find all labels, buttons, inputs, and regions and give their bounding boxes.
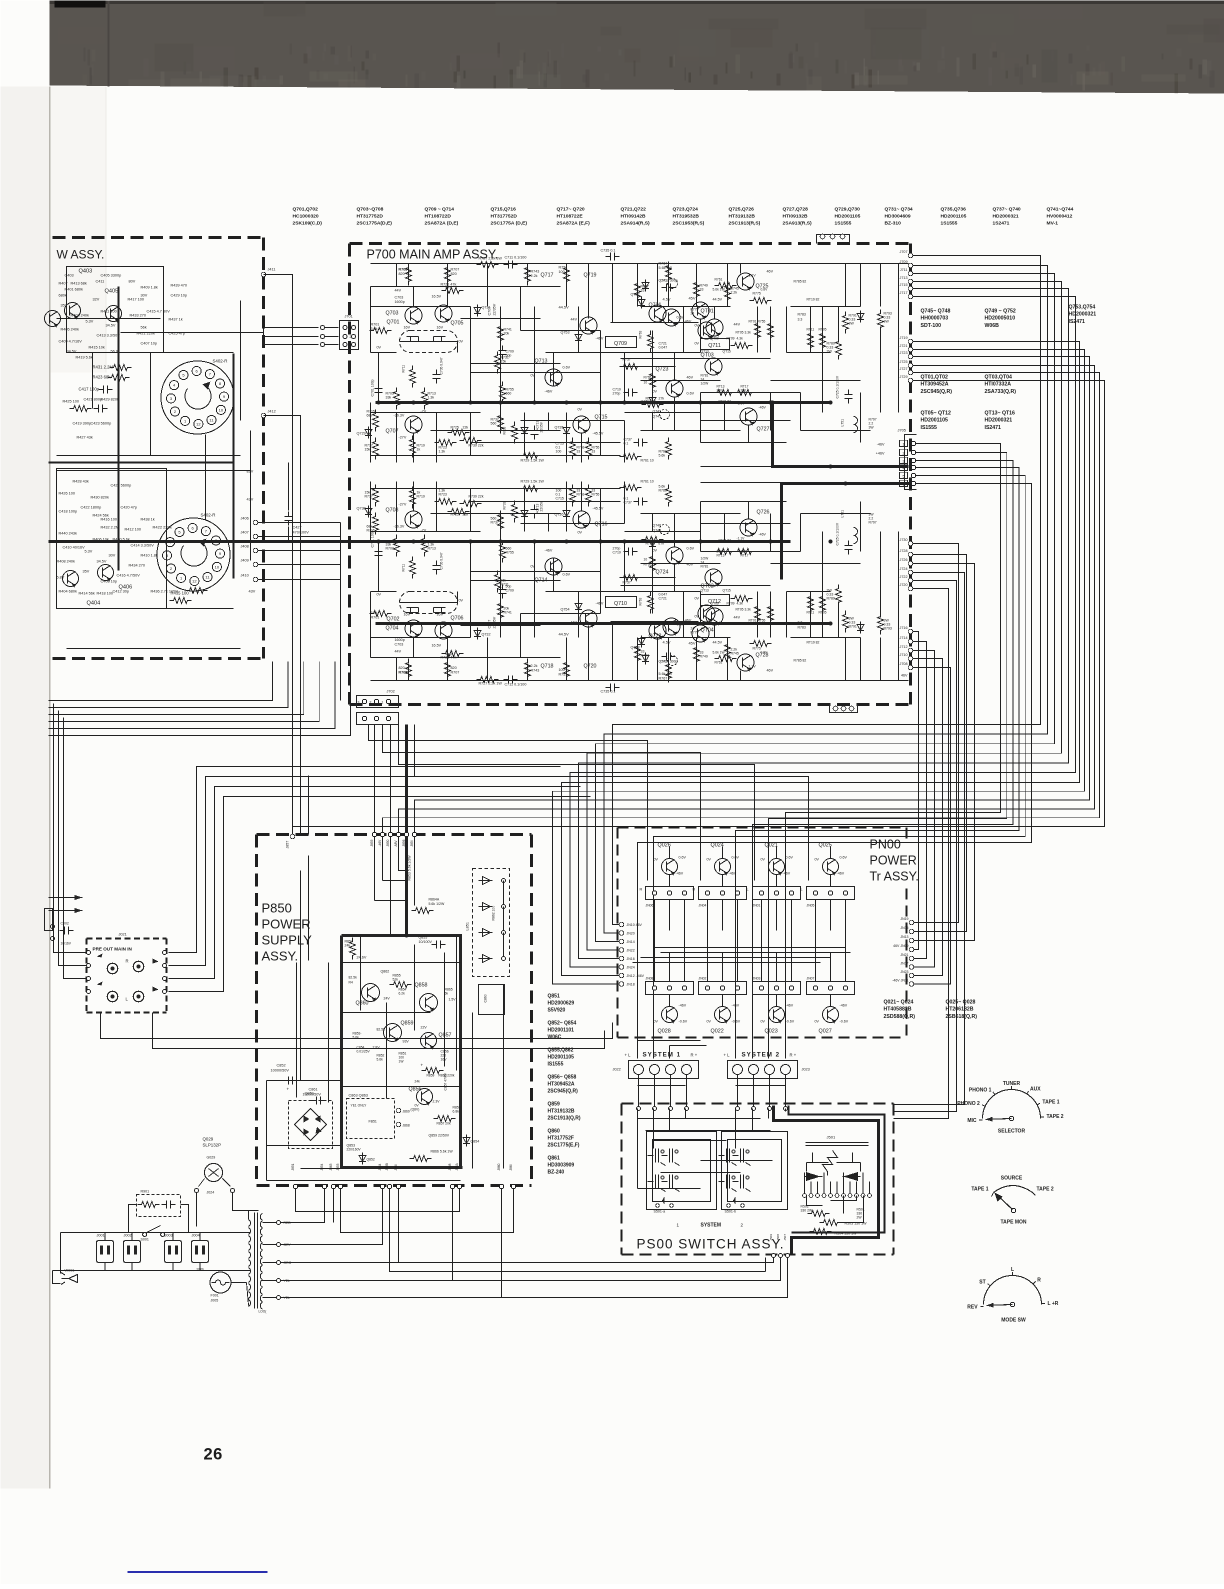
wire J707 run bbox=[613, 256, 1041, 925]
svg-text:R429 820k: R429 820k bbox=[101, 398, 119, 402]
svg-text:J719: J719 bbox=[900, 336, 908, 340]
svg-text:16V: 16V bbox=[437, 613, 444, 617]
resistor R864A bbox=[412, 908, 434, 914]
svg-text:R765: R765 bbox=[644, 376, 652, 380]
svg-text:Q856~ Q858HT309452A2SC945(Q,R): Q856~ Q858HT309452A2SC945(Q,R) bbox=[548, 1075, 579, 1095]
arrow S501-a bbox=[662, 1197, 665, 1205]
resistor R725 bbox=[448, 509, 470, 515]
wire J501 c bbox=[843, 1196, 845, 1214]
wire bbox=[731, 392, 801, 394]
svg-text:C424 5600p: C424 5600p bbox=[111, 484, 132, 488]
svg-text:1.3k: 1.3k bbox=[428, 543, 435, 547]
svg-text:-46V: -46V bbox=[732, 1004, 740, 1008]
wire bracket col b bbox=[845, 900, 847, 982]
svg-text:C703: C703 bbox=[395, 296, 404, 300]
switch S501-b bbox=[719, 1149, 751, 1192]
wire bbox=[862, 1173, 864, 1194]
svg-text:Q021: Q021 bbox=[765, 843, 778, 849]
junction bbox=[469, 401, 473, 405]
pad J711 bbox=[908, 271, 913, 276]
pad JN01 bbox=[789, 891, 793, 895]
bracket JN06 bbox=[646, 887, 694, 900]
pad JN04 bbox=[735, 891, 739, 895]
wire J024 drop a bbox=[196, 1193, 198, 1227]
wire tap RED to J854 bbox=[281, 1189, 325, 1223]
wire AC neutral bus bbox=[53, 1270, 251, 1272]
svg-text:C725 0.1/100V: C725 0.1/100V bbox=[836, 375, 840, 398]
wire bbox=[612, 264, 614, 323]
pad J501-8 bbox=[848, 1194, 852, 1198]
pad J501-9 bbox=[855, 1194, 859, 1198]
pad J702-1 bbox=[386, 699, 390, 703]
svg-text:Q701,Q702HC10003202SK109(C,D): Q701,Q702HC10003202SK109(C,D) bbox=[293, 207, 323, 227]
svg-text:44.5V: 44.5V bbox=[559, 305, 570, 310]
pad J707 bbox=[908, 253, 913, 258]
svg-text:R781: R781 bbox=[701, 565, 709, 569]
svg-text:R751: R751 bbox=[559, 266, 568, 270]
wire bbox=[534, 307, 536, 403]
svg-text:4.5V: 4.5V bbox=[663, 640, 671, 645]
pad J729 bbox=[908, 378, 913, 383]
junction bbox=[844, 482, 848, 486]
wire bbox=[748, 502, 750, 520]
pad J705-6 bbox=[911, 481, 915, 485]
wire J702 to P850 pad3 bbox=[390, 725, 392, 833]
resistor R721 bbox=[442, 288, 464, 294]
svg-text:0.33: 0.33 bbox=[827, 593, 834, 597]
transistor Q716 bbox=[573, 511, 590, 528]
svg-text:Q851: Q851 bbox=[305, 1091, 315, 1096]
svg-text:R504 150 1W: R504 150 1W bbox=[835, 1232, 858, 1236]
wire plug neutral bbox=[53, 1271, 61, 1284]
pad J021 left 2 bbox=[87, 977, 91, 981]
transistor Q403a bbox=[45, 311, 61, 327]
pad J722 bbox=[908, 578, 913, 583]
resistor R713 bbox=[422, 535, 428, 557]
svg-text:Q738: Q738 bbox=[631, 646, 640, 650]
wire J022 feed stub b bbox=[670, 1045, 707, 1047]
resistor R737b bbox=[498, 412, 504, 434]
wire bbox=[66, 922, 68, 953]
pad switch top bbox=[637, 1107, 641, 1111]
wire bbox=[845, 264, 847, 307]
transistor Q704 bbox=[405, 620, 422, 637]
svg-text:R901: R901 bbox=[141, 1190, 150, 1194]
wire bbox=[524, 489, 526, 532]
svg-text:0.047: 0.047 bbox=[659, 346, 668, 350]
pad J853 bbox=[338, 1184, 342, 1188]
svg-text:J409: J409 bbox=[241, 559, 249, 563]
wire bbox=[724, 403, 726, 431]
svg-text:43V: 43V bbox=[249, 590, 256, 594]
wire system drop bbox=[654, 1075, 656, 1107]
svg-text:Q029: Q029 bbox=[203, 1137, 214, 1142]
resistor R755 bbox=[500, 541, 506, 563]
svg-text:22/35V: 22/35V bbox=[493, 303, 497, 315]
lamp G029 bbox=[205, 1164, 223, 1182]
wire snubber right bbox=[181, 1205, 189, 1233]
svg-text:L: L bbox=[801, 888, 803, 892]
wire YEL2 to switch bbox=[502, 1258, 788, 1298]
dial pointer mode bbox=[987, 1304, 1013, 1307]
transistor Q711 bbox=[706, 319, 723, 336]
wire bbox=[652, 413, 654, 431]
pad top connector bbox=[820, 234, 825, 239]
resistor R763 bbox=[648, 331, 654, 353]
wire bbox=[121, 332, 264, 334]
dark header banner bbox=[50, 1, 1224, 94]
svg-text:L751: L751 bbox=[841, 419, 845, 427]
AC outlet J003 bbox=[165, 1241, 182, 1263]
wire bbox=[382, 837, 384, 881]
wire bbox=[810, 592, 812, 638]
transistor Q857 bbox=[421, 1033, 437, 1049]
wire bbox=[621, 577, 676, 579]
wire bbox=[641, 957, 831, 959]
svg-text:46V: 46V bbox=[767, 270, 774, 274]
wire bbox=[701, 1160, 773, 1162]
wire bbox=[674, 397, 676, 431]
svg-text:R437 1k: R437 1k bbox=[169, 318, 183, 322]
wire bbox=[701, 392, 771, 394]
svg-text:Q405: Q405 bbox=[105, 289, 119, 295]
Q403 block outline bbox=[67, 267, 164, 353]
svg-text:R435 100: R435 100 bbox=[171, 591, 190, 596]
svg-text:J701: J701 bbox=[345, 315, 353, 319]
svg-text:R432 2.2M: R432 2.2M bbox=[101, 526, 120, 530]
svg-text:C002: C002 bbox=[61, 922, 69, 926]
resistor R769 bbox=[666, 438, 672, 460]
switch S501-a bbox=[648, 1149, 680, 1192]
wire snubber left bbox=[129, 1205, 137, 1233]
AC outlet J004 bbox=[192, 1241, 209, 1263]
resistor R761 bbox=[620, 485, 642, 491]
svg-text:4.3k: 4.3k bbox=[737, 602, 744, 606]
resistor R763 bbox=[648, 592, 654, 614]
transistor Q717 bbox=[649, 305, 666, 322]
svg-text:C420 47p: C420 47p bbox=[121, 506, 137, 510]
resistor R755b bbox=[586, 438, 592, 460]
wire bbox=[612, 622, 614, 681]
svg-text:JN04: JN04 bbox=[699, 904, 707, 908]
wire bbox=[371, 531, 481, 533]
pad J710 bbox=[908, 656, 913, 661]
svg-text:R404 680k: R404 680k bbox=[59, 590, 77, 594]
svg-text:TAPE 2: TAPE 2 bbox=[1046, 1114, 1063, 1120]
wire J022 feed stub bbox=[638, 1040, 701, 1042]
wire bbox=[521, 613, 601, 615]
svg-text:1.3k: 1.3k bbox=[439, 450, 446, 454]
wire bbox=[652, 514, 654, 532]
svg-text:RT19 82: RT19 82 bbox=[807, 298, 820, 302]
wire bbox=[787, 352, 831, 354]
pad J410 bbox=[253, 577, 258, 582]
wire bbox=[578, 307, 580, 353]
transistor Q859 bbox=[384, 1024, 402, 1042]
transistor QT03 bbox=[705, 358, 722, 375]
wire J501 b bbox=[831, 1196, 857, 1201]
wire J701 stub bbox=[323, 344, 339, 346]
svg-text:JN19: JN19 bbox=[900, 917, 908, 921]
wire bbox=[625, 412, 701, 414]
wire bbox=[163, 267, 165, 353]
svg-text:JN03: JN03 bbox=[753, 977, 761, 981]
wire bbox=[400, 341, 458, 343]
top-left paper tint bbox=[51, 87, 107, 373]
svg-text:R737: R737 bbox=[491, 521, 499, 525]
pad J853 bbox=[396, 832, 400, 836]
capacitor C719 bbox=[624, 389, 638, 397]
wire tr top bbox=[669, 847, 671, 859]
wire bbox=[588, 626, 590, 681]
pad JN06 bbox=[652, 891, 656, 895]
resistor R717 bbox=[373, 485, 379, 507]
svg-text:C417 100p: C417 100p bbox=[79, 387, 100, 392]
wire outlet return bbox=[172, 1263, 174, 1271]
wire bbox=[383, 880, 407, 882]
svg-text:80V: 80V bbox=[129, 280, 136, 284]
wire J701 stub bbox=[323, 327, 339, 329]
transistor QT04 bbox=[698, 605, 715, 622]
bracket JN03 bbox=[753, 982, 801, 995]
resistor R717 bbox=[373, 438, 379, 460]
snubber R901 C901 box bbox=[137, 1195, 181, 1217]
wire bbox=[386, 1003, 388, 1099]
wire tr to bracket bbox=[776, 875, 778, 887]
pad switch top bbox=[736, 1107, 740, 1111]
wire tr to bracket bbox=[722, 875, 724, 887]
svg-text:R703: R703 bbox=[386, 547, 394, 551]
wire bbox=[342, 1012, 431, 1014]
svg-text:R729 1.5k 1W: R729 1.5k 1W bbox=[521, 459, 545, 463]
svg-text:R713: R713 bbox=[428, 547, 436, 551]
wire bbox=[823, 1173, 825, 1194]
svg-text:R775: R775 bbox=[753, 292, 761, 296]
wire bbox=[621, 591, 701, 593]
pad JN17 bbox=[909, 965, 914, 970]
svg-text:C735 0.1: C735 0.1 bbox=[601, 690, 616, 694]
pad J730 bbox=[908, 541, 913, 546]
capacitor C417 bbox=[99, 386, 113, 394]
resistor R713 bbox=[422, 388, 428, 410]
svg-text:C860: C860 bbox=[484, 994, 488, 1002]
svg-text:0.6V: 0.6V bbox=[563, 573, 571, 577]
svg-text:R721 47k: R721 47k bbox=[441, 283, 457, 287]
svg-text:5.3V: 5.3V bbox=[86, 320, 94, 324]
svg-text:C419 390p: C419 390p bbox=[73, 422, 92, 426]
wire bracket col b bbox=[791, 900, 793, 982]
pad JN01 bbox=[759, 891, 763, 895]
svg-text:QT15: QT15 bbox=[723, 589, 731, 593]
wire J024 drop b bbox=[233, 1193, 259, 1211]
svg-text:Q703: Q703 bbox=[386, 311, 399, 317]
wire J727 run bbox=[383, 373, 1100, 833]
bracket JN01 bbox=[753, 887, 801, 900]
dashed diode Q744 bbox=[660, 525, 670, 535]
svg-text:YEL: YEL bbox=[284, 1296, 291, 1300]
svg-text:5.6k 1W: 5.6k 1W bbox=[713, 651, 726, 655]
block L860 bbox=[479, 985, 505, 1015]
svg-text:P850: P850 bbox=[262, 901, 292, 916]
svg-text:0V: 0V bbox=[654, 1020, 659, 1024]
svg-text:Q715: Q715 bbox=[595, 415, 608, 421]
svg-text:R761: R761 bbox=[715, 661, 723, 665]
svg-text:J730: J730 bbox=[900, 538, 908, 542]
svg-text:R: R bbox=[693, 888, 696, 892]
resistor R731 bbox=[495, 352, 501, 374]
capacitor C709 bbox=[499, 585, 507, 599]
wire J701 feed bbox=[311, 336, 319, 338]
wire bbox=[414, 837, 416, 906]
capacitor C719 bbox=[624, 548, 638, 556]
svg-text:Q719: Q719 bbox=[584, 273, 597, 279]
fuse F001 J005 bbox=[210, 1272, 231, 1293]
diode Q733 bbox=[521, 425, 528, 437]
junction bbox=[651, 540, 655, 544]
wire bbox=[845, 900, 847, 948]
banner top dark edge bbox=[50, 1, 1224, 5]
svg-text:+46V: +46V bbox=[876, 452, 885, 456]
wire bbox=[436, 413, 438, 463]
resistor R769 bbox=[666, 485, 672, 507]
pad tap RED bbox=[277, 1221, 281, 1225]
svg-text:Q022: Q022 bbox=[711, 1029, 724, 1035]
wire bbox=[804, 1173, 806, 1194]
svg-text:R864A: R864A bbox=[429, 898, 440, 902]
pad J721 bbox=[908, 347, 913, 352]
svg-text:0.047: 0.047 bbox=[659, 593, 668, 597]
svg-text:C863 Q863: C863 Q863 bbox=[349, 1094, 368, 1098]
svg-text:6.2k: 6.2k bbox=[399, 992, 406, 996]
wire bbox=[487, 264, 489, 281]
resistor R749 bbox=[694, 279, 700, 301]
wire bbox=[674, 514, 676, 548]
svg-text:Q027: Q027 bbox=[819, 1029, 832, 1035]
svg-text:R743: R743 bbox=[531, 669, 540, 673]
svg-text:46V: 46V bbox=[687, 376, 694, 380]
wire J728 run bbox=[913, 555, 967, 932]
svg-text:J406: J406 bbox=[241, 517, 249, 521]
wire bracket col mid2 bbox=[776, 953, 778, 982]
wire bbox=[701, 501, 787, 503]
svg-text:6.8k: 6.8k bbox=[453, 1110, 460, 1114]
wire bbox=[787, 591, 831, 593]
pad J708 bbox=[908, 665, 913, 670]
transistor Q021 bbox=[769, 859, 785, 875]
wire bbox=[724, 514, 726, 542]
svg-text:R753: R753 bbox=[577, 493, 585, 497]
svg-text:44V: 44V bbox=[395, 650, 402, 654]
junction bbox=[412, 401, 416, 405]
svg-text:J021: J021 bbox=[119, 933, 127, 937]
svg-text:-45.5V: -45.5V bbox=[593, 432, 604, 436]
pad JN22 bbox=[619, 948, 624, 953]
svg-text:R763: R763 bbox=[639, 330, 643, 338]
svg-text:45V: 45V bbox=[689, 641, 696, 646]
junction bbox=[405, 934, 409, 938]
wire bbox=[770, 592, 772, 638]
svg-text:Q723: Q723 bbox=[656, 367, 669, 373]
svg-text:1/2W: 1/2W bbox=[701, 382, 710, 386]
wire outlet feed bbox=[104, 1233, 106, 1241]
pad J701 ext c bbox=[320, 342, 324, 346]
wire bbox=[503, 881, 505, 907]
svg-text:-46V: -46V bbox=[759, 533, 767, 537]
pad J864 bbox=[380, 1184, 384, 1188]
resistor R749 bbox=[694, 644, 700, 666]
svg-text:R426 100: R426 100 bbox=[59, 492, 75, 496]
transistor Q703 bbox=[405, 307, 422, 324]
wire tap YEL bbox=[263, 1297, 277, 1299]
pad switch top bbox=[768, 1107, 772, 1111]
svg-text:R783: R783 bbox=[798, 313, 806, 317]
wire bbox=[898, 307, 900, 413]
heavy supply frame bbox=[342, 936, 463, 1168]
resistor R743 bbox=[525, 659, 531, 681]
svg-text:J728: J728 bbox=[900, 549, 908, 553]
svg-text:Q705: Q705 bbox=[451, 321, 464, 327]
pad J717 bbox=[908, 294, 913, 299]
wire bbox=[397, 657, 521, 659]
svg-text:J711: J711 bbox=[900, 268, 908, 272]
svg-text:J716: J716 bbox=[900, 626, 908, 630]
jack J023 bbox=[733, 1065, 743, 1075]
wire J714 run bbox=[913, 642, 927, 959]
wire hidden2 bbox=[161, 1232, 247, 1234]
wire bracket col mid2 bbox=[830, 953, 832, 982]
wire bbox=[770, 514, 772, 552]
svg-text:J854: J854 bbox=[320, 1163, 324, 1170]
svg-text:-27V: -27V bbox=[399, 503, 407, 507]
pad L851 bbox=[502, 957, 506, 961]
resistor R901 bbox=[138, 1202, 160, 1208]
wire preout riser 1 bbox=[169, 777, 571, 966]
svg-text:R853 5.6k 1/2W: R853 5.6k 1/2W bbox=[408, 855, 412, 881]
svg-text:100: 100 bbox=[559, 668, 565, 672]
arrow S501-b bbox=[733, 1197, 736, 1205]
svg-text:5.6k: 5.6k bbox=[377, 1058, 384, 1062]
svg-text:1.3k: 1.3k bbox=[428, 396, 435, 400]
pad J860 bbox=[499, 1184, 503, 1188]
svg-text:Q025: Q025 bbox=[819, 843, 832, 849]
pad J727 bbox=[908, 370, 913, 375]
junction bbox=[599, 401, 603, 405]
resistor R789 bbox=[836, 338, 842, 360]
svg-text:TAPE 1: TAPE 1 bbox=[1042, 1100, 1059, 1106]
wire bbox=[791, 637, 861, 639]
diode in L851 bbox=[479, 955, 493, 963]
svg-text:C416 4.7/50V: C416 4.7/50V bbox=[117, 574, 141, 578]
wire preout riser 3 bbox=[169, 797, 591, 992]
wire J409 bbox=[258, 564, 341, 566]
resistor R767 bbox=[666, 262, 672, 284]
svg-text:JN21: JN21 bbox=[900, 953, 908, 957]
wire J702 to P850 pad1 bbox=[374, 725, 376, 833]
svg-text:27k: 27k bbox=[659, 397, 665, 401]
resistor R504 bbox=[810, 1229, 832, 1235]
diode S502b bbox=[843, 1173, 861, 1181]
svg-text:33: 33 bbox=[577, 489, 581, 493]
wire rail2 bbox=[371, 286, 561, 288]
wire C427 to rail bbox=[288, 527, 290, 542]
boxed label Q709 bbox=[606, 337, 637, 348]
junction bbox=[829, 622, 833, 626]
wire bbox=[396, 264, 398, 287]
svg-text:3W: 3W bbox=[849, 322, 855, 326]
pad JN02 bbox=[720, 986, 724, 990]
wire bbox=[655, 947, 846, 949]
svg-text:J724: J724 bbox=[900, 567, 908, 571]
